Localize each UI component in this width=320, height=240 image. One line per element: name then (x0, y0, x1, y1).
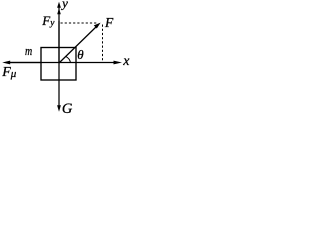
svg-text:θ: θ (77, 47, 84, 62)
mass box m (41, 48, 76, 81)
dashed horizontal projection (61, 22, 98, 24)
svg-text:Fμ: Fμ (1, 65, 17, 80)
y-axis (57, 2, 61, 63)
svg-text:F: F (104, 15, 114, 30)
x-axis (6, 61, 122, 65)
force vector Fy (57, 8, 61, 63)
weight vector G (57, 63, 61, 112)
force vector F (59, 23, 101, 63)
friction vector Fμ (2, 61, 41, 65)
svg-text:m: m (25, 43, 32, 58)
svg-text:y: y (60, 0, 68, 11)
angle arc (65, 56, 70, 63)
svg-text:Fy: Fy (41, 13, 55, 29)
dashed vertical projection (102, 25, 104, 63)
svg-text:x: x (122, 54, 130, 69)
svg-text:G: G (62, 101, 73, 117)
